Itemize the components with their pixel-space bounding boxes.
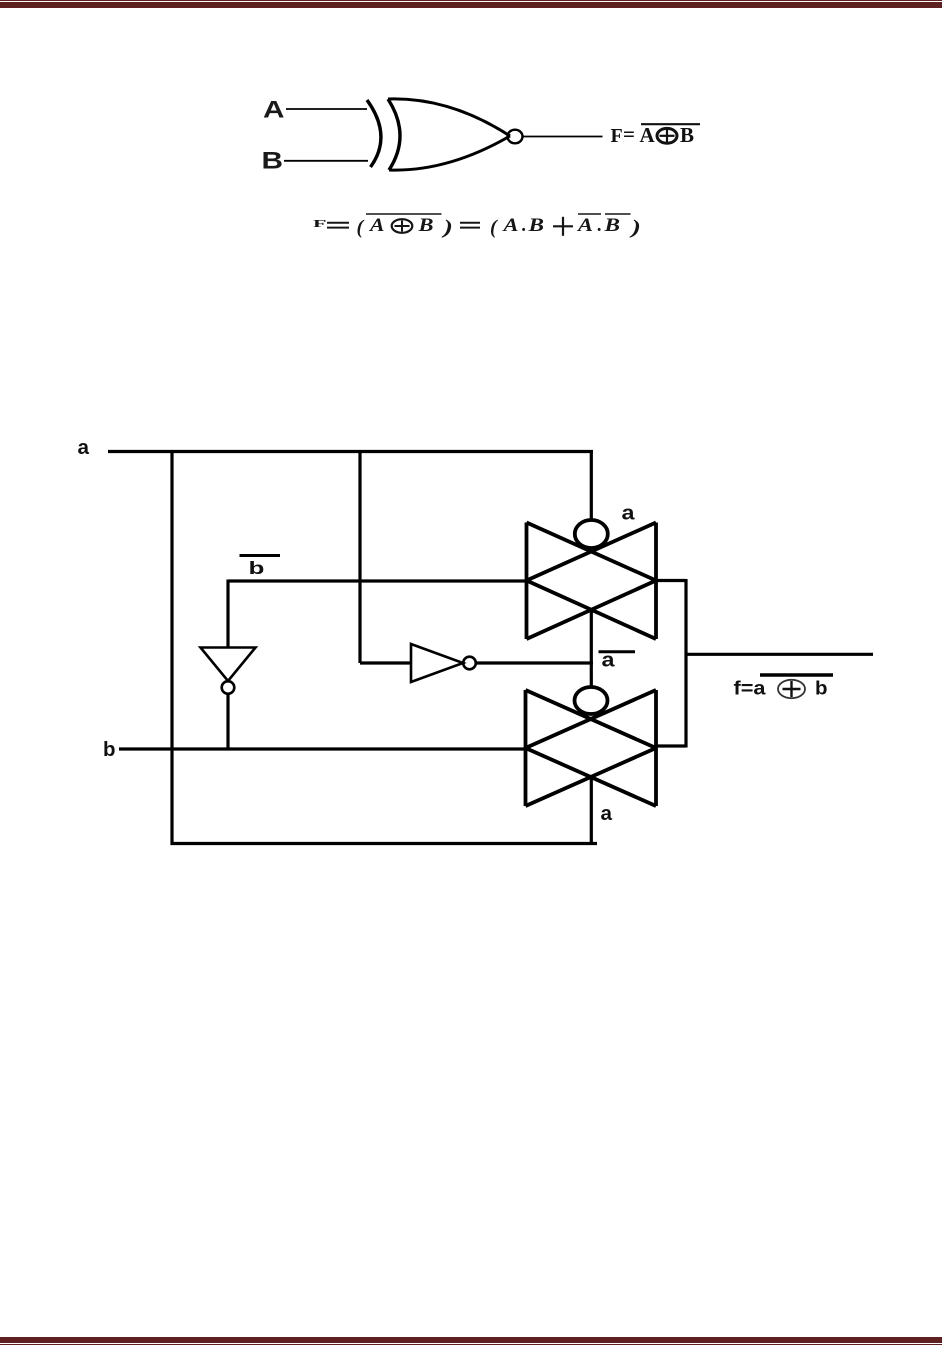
svg-text:b: b [249,558,265,578]
svg-text:b: b [815,679,828,700]
svg-text:A: A [640,123,656,147]
svg-text:(: ( [490,216,498,238]
svg-text:A: A [577,216,593,236]
svg-text:(: ( [357,216,365,238]
svg-text:a: a [602,650,616,672]
svg-text:a: a [622,503,636,525]
svg-text:): ) [441,216,453,238]
svg-text:A: A [502,216,518,236]
svg-text:B: B [680,123,694,147]
svg-text:B: B [262,148,284,175]
svg-text:a: a [78,437,90,459]
svg-text:B: B [603,216,620,236]
svg-text:A: A [369,216,385,236]
svg-text:f=a: f=a [734,679,766,700]
svg-text:A: A [263,97,285,124]
svg-text:F: F [611,125,623,147]
svg-text:.: . [522,216,527,236]
svg-text:a: a [601,803,613,825]
svg-text:B: B [527,216,544,236]
svg-text:): ) [629,216,641,238]
svg-text:F: F [313,218,327,230]
svg-text:.: . [598,216,603,236]
svg-text:=: = [623,122,635,146]
svg-text:B: B [417,216,433,236]
svg-text:b: b [103,739,116,761]
